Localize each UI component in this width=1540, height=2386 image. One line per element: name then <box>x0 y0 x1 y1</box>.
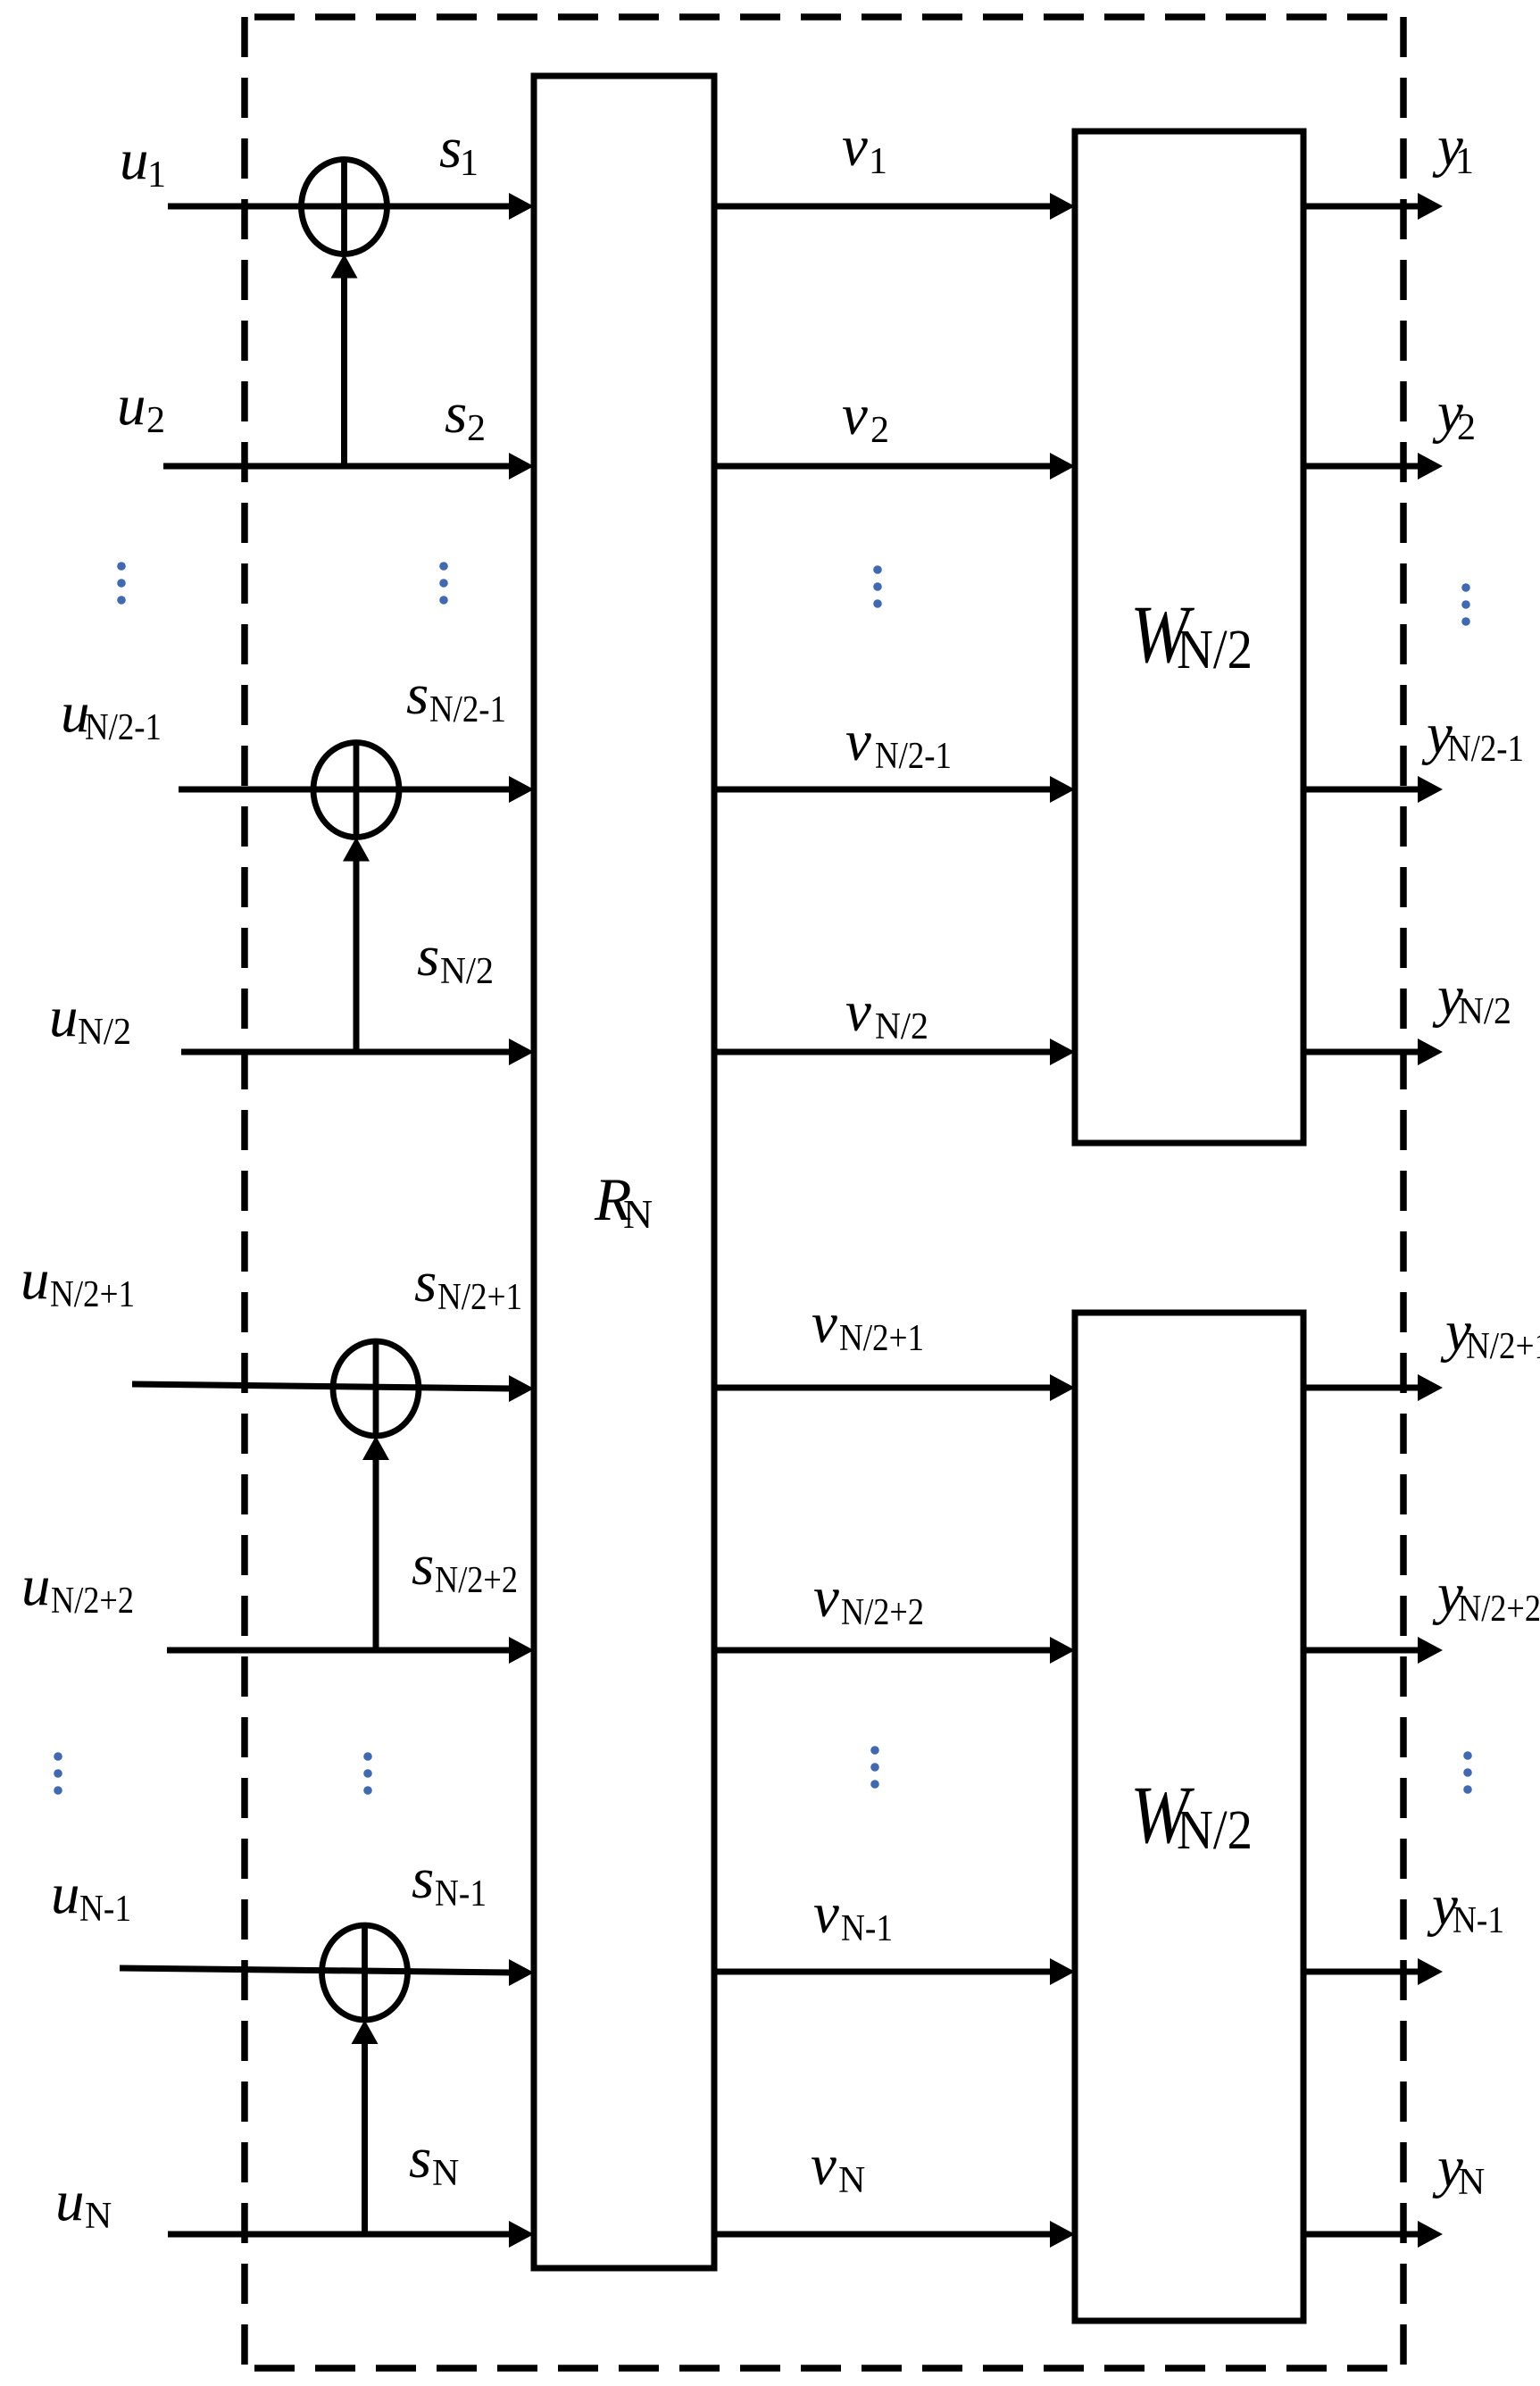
svg-text:s: s <box>412 1847 434 1911</box>
svg-text:N/2-1: N/2-1 <box>1447 729 1524 770</box>
svg-text:N/2: N/2 <box>1177 1800 1253 1861</box>
label W_N/2 upper <box>1130 588 1253 680</box>
ellipsis left upper <box>117 562 126 605</box>
svg-text:N-1: N-1 <box>1453 1900 1504 1941</box>
svg-text:u: u <box>120 128 149 192</box>
xor adder on row uN-1 <box>322 1925 408 2020</box>
label s2 <box>445 381 486 449</box>
xor adder on row uN/2-1 <box>313 743 399 838</box>
label v1 <box>842 114 887 182</box>
svg-text:N: N <box>432 2153 459 2194</box>
label sN-1 <box>412 1847 487 1915</box>
svg-text:N/2+2: N/2+2 <box>1458 1589 1540 1630</box>
label uN/2+2 <box>21 1554 134 1622</box>
label uN <box>55 2169 112 2237</box>
ellipsis y column upper <box>1461 583 1470 626</box>
label vN/2-1 <box>845 709 952 777</box>
wire uN/2+1 input into RN <box>132 1375 534 1402</box>
label sN/2 <box>417 924 494 992</box>
svg-text:v: v <box>813 1565 839 1630</box>
svg-text:N-1: N-1 <box>435 1873 487 1915</box>
svg-text:N/2-1: N/2-1 <box>85 707 162 748</box>
wire vN-1 from RN to W_N/2 <box>714 1958 1075 1985</box>
label yN/2 <box>1432 964 1511 1032</box>
svg-text:N: N <box>85 2196 112 2237</box>
label u1 <box>120 128 166 196</box>
svg-text:v: v <box>842 114 868 179</box>
svg-text:N: N <box>838 2160 865 2201</box>
label v2 <box>842 383 889 451</box>
dashed encoder boundary <box>245 17 1403 2368</box>
svg-text:1: 1 <box>147 154 166 196</box>
svg-text:s: s <box>409 2126 431 2190</box>
label s1 <box>439 116 479 184</box>
svg-text:2: 2 <box>870 410 889 451</box>
svg-text:s: s <box>439 116 462 180</box>
ellipsis y column lower <box>1463 1751 1472 1794</box>
wire y1 output from W_N/2 <box>1303 193 1443 220</box>
block W_N/2 lower <box>1075 1313 1303 2321</box>
label sN/2+1 <box>414 1250 522 1318</box>
label yN/2-1 <box>1421 702 1524 770</box>
label vN/2+2 <box>813 1565 924 1633</box>
wire sN/2 branch up into xor <box>343 838 370 1053</box>
label y1 <box>1432 114 1474 182</box>
svg-text:v: v <box>845 980 871 1044</box>
ellipsis s column upper <box>439 562 448 605</box>
svg-text:u: u <box>21 1554 51 1618</box>
wire uN/2+2 input into RN <box>167 1637 534 1664</box>
wire yN-1 output from W_N/2 <box>1303 1958 1443 1985</box>
svg-text:N/2: N/2 <box>1458 991 1511 1032</box>
svg-text:v: v <box>813 1881 839 1946</box>
block RN bit-reversal permutation <box>534 76 714 2268</box>
svg-text:N/2+1: N/2+1 <box>1466 1326 1540 1367</box>
svg-text:N/2-1: N/2-1 <box>429 689 506 730</box>
svg-text:u: u <box>21 1247 50 1312</box>
svg-text:N/2+1: N/2+1 <box>437 1277 522 1318</box>
svg-text:2: 2 <box>146 400 165 441</box>
svg-text:N-1: N-1 <box>79 1889 131 1930</box>
wire yN/2 output from W_N/2 <box>1303 1039 1443 1065</box>
svg-text:N/2: N/2 <box>78 1012 131 1053</box>
wire vN/2+1 from RN to W_N/2 <box>714 1374 1075 1401</box>
wire uN input into RN <box>168 2221 534 2248</box>
svg-text:s: s <box>412 1533 434 1598</box>
wire yN output from W_N/2 <box>1303 2221 1443 2248</box>
label yN/2+2 <box>1432 1562 1540 1630</box>
svg-text:s: s <box>417 924 439 989</box>
block W_N/2 upper <box>1075 131 1303 1143</box>
wire sN branch up into xor <box>352 2020 379 2234</box>
label W_N/2 lower <box>1130 1769 1253 1861</box>
svg-text:s: s <box>406 663 429 727</box>
svg-text:1: 1 <box>460 143 479 184</box>
ellipsis s column lower <box>363 1752 372 1795</box>
svg-text:v: v <box>812 1291 837 1356</box>
svg-text:u: u <box>51 1862 80 1926</box>
wire uN/2-1 input into RN <box>179 776 534 803</box>
xor adder on row uN/2+1 <box>333 1341 419 1436</box>
ellipsis v column upper <box>873 565 882 608</box>
svg-text:s: s <box>414 1250 437 1314</box>
svg-text:N: N <box>1458 2162 1485 2203</box>
wire yN/2+1 output from W_N/2 <box>1303 1374 1443 1401</box>
svg-text:v: v <box>811 2133 837 2198</box>
wire u2 input into RN <box>163 453 534 480</box>
label sN/2+2 <box>412 1533 518 1601</box>
wire v1 from RN to W_N/2 <box>714 193 1075 220</box>
ellipsis left lower <box>54 1752 62 1795</box>
svg-text:N/2+2: N/2+2 <box>435 1560 518 1601</box>
label u2 <box>117 373 165 441</box>
wire yN/2-1 output from W_N/2 <box>1303 776 1443 803</box>
svg-text:N/2+2: N/2+2 <box>841 1592 924 1633</box>
svg-text:u: u <box>49 985 79 1049</box>
svg-text:N/2: N/2 <box>440 951 494 992</box>
svg-text:N/2+1: N/2+1 <box>50 1274 135 1315</box>
svg-text:N/2: N/2 <box>1177 620 1253 680</box>
svg-text:2: 2 <box>1457 407 1476 448</box>
svg-text:2: 2 <box>467 408 486 449</box>
svg-text:1: 1 <box>869 141 887 182</box>
wire yN/2+2 output from W_N/2 <box>1303 1637 1443 1664</box>
label RN <box>594 1165 653 1237</box>
svg-text:N-1: N-1 <box>841 1908 893 1949</box>
label uN/2-1 <box>61 680 162 748</box>
label y2 <box>1432 380 1476 448</box>
wire s2 branch up into xor <box>331 254 358 467</box>
wire sN/2+2 branch up into xor <box>362 1436 389 1650</box>
label uN/2+1 <box>21 1247 135 1315</box>
wire uN-1 input into RN <box>120 1959 534 1986</box>
label vN-1 <box>813 1881 893 1949</box>
svg-text:u: u <box>117 373 146 438</box>
label yN/2+1 <box>1440 1299 1540 1367</box>
xor adder on row u1 <box>302 160 387 254</box>
label vN/2 <box>845 980 928 1047</box>
wire y2 output from W_N/2 <box>1303 453 1443 480</box>
wire u1 input into RN <box>168 193 534 220</box>
svg-text:u: u <box>55 2169 85 2233</box>
wire vN from RN to W_N/2 <box>714 2221 1075 2248</box>
label sN <box>409 2126 459 2194</box>
label sN/2-1 <box>406 663 506 730</box>
svg-text:N/2+2: N/2+2 <box>51 1581 134 1622</box>
wire v2 from RN to W_N/2 <box>714 453 1075 480</box>
label yN-1 <box>1427 1873 1504 1941</box>
svg-text:N/2-1: N/2-1 <box>875 736 952 777</box>
svg-text:N/2: N/2 <box>875 1006 928 1047</box>
wire vN/2 from RN to W_N/2 <box>714 1039 1075 1065</box>
label uN/2 <box>49 985 131 1053</box>
wire uN/2 input into RN <box>181 1039 534 1065</box>
svg-text:s: s <box>445 381 467 446</box>
label yN <box>1432 2135 1485 2203</box>
label vN <box>811 2133 865 2201</box>
ellipsis v column lower <box>870 1746 879 1789</box>
svg-text:1: 1 <box>1455 141 1474 182</box>
svg-text:N: N <box>623 1191 653 1237</box>
svg-text:N/2+1: N/2+1 <box>839 1318 924 1359</box>
label uN-1 <box>51 1862 131 1930</box>
svg-text:v: v <box>842 383 868 447</box>
svg-text:v: v <box>845 709 871 773</box>
wire vN/2-1 from RN to W_N/2 <box>714 776 1075 803</box>
wire vN/2+2 from RN to W_N/2 <box>714 1637 1075 1664</box>
label vN/2+1 <box>812 1291 924 1359</box>
